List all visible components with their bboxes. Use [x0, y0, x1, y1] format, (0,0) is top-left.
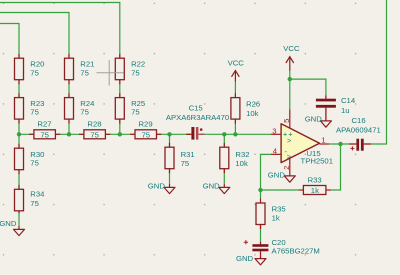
resistor R21: [65, 54, 95, 84]
svg-text:VCC: VCC: [283, 44, 300, 53]
svg-text:C14: C14: [341, 96, 356, 105]
junction bus-R31: [167, 132, 171, 136]
svg-text:75: 75: [30, 199, 39, 208]
svg-text:R22: R22: [131, 59, 145, 68]
svg-text:GND: GND: [0, 219, 17, 228]
svg-text:10k: 10k: [246, 109, 259, 118]
svg-text:75: 75: [30, 159, 39, 168]
resistor R34: [15, 185, 46, 213]
wire R35 to C20: [260, 225, 262, 242]
svg-text:5: 5: [282, 119, 291, 123]
svg-text:75: 75: [30, 108, 39, 117]
junction bus-R24: [67, 132, 71, 136]
wire inverting input net: [261, 154, 299, 198]
svg-text:GND: GND: [268, 170, 286, 179]
svg-text:1u: 1u: [341, 106, 350, 115]
junction bus-R23: [17, 132, 21, 136]
wire R26 branch: [234, 82, 236, 135]
cursor crosshair: [97, 60, 124, 85]
svg-text:R34: R34: [30, 189, 45, 198]
svg-text:A765BG227M: A765BG227M: [272, 247, 320, 256]
resistor R28: [79, 119, 110, 139]
resistor R26: [231, 93, 260, 123]
svg-text:>: >: [287, 152, 292, 161]
svg-text:R28: R28: [87, 119, 101, 128]
svg-text:75: 75: [40, 130, 49, 139]
wire column 3 R22-R25: [119, 54, 121, 134]
junction VCC-C14: [288, 77, 292, 81]
svg-text:10k: 10k: [235, 159, 248, 168]
resistor R22: [115, 54, 145, 84]
wire VCC to opamp pin5 and C14: [290, 70, 326, 110]
ground below R31: [148, 181, 175, 193]
svg-text:75: 75: [90, 130, 99, 139]
svg-text:R33: R33: [308, 176, 322, 185]
junction inverting-R35: [258, 188, 262, 192]
wire column 2 R21-R24: [68, 54, 70, 134]
wire output net: [329, 143, 349, 145]
svg-text:R24: R24: [80, 99, 95, 108]
svg-text:R21: R21: [80, 59, 94, 68]
resistor R23: [15, 93, 45, 123]
resistor R20: [15, 54, 45, 84]
wire second net to R21: [0, 13, 69, 55]
ground below R34: [0, 219, 25, 236]
resistor R35: [256, 199, 286, 230]
svg-text:GND: GND: [148, 181, 166, 190]
wire R31 to gnd: [169, 134, 171, 184]
svg-text:C16: C16: [352, 116, 366, 125]
junction bus-R26: [233, 132, 237, 136]
svg-text:GND: GND: [236, 254, 254, 263]
resistor R25: [115, 93, 145, 123]
wire R32 to gnd: [223, 134, 225, 184]
svg-text:75: 75: [80, 108, 89, 117]
resistor R24: [65, 93, 96, 123]
junction bus-R25: [118, 132, 122, 136]
wire feedback R33 to output: [331, 144, 340, 190]
resistor R33: [299, 176, 332, 195]
svg-text:APXA6R3ARA470: APXA6R3ARA470: [166, 113, 229, 122]
svg-text:GND: GND: [203, 181, 221, 190]
op-amp U15: [271, 110, 333, 176]
resistor R30: [15, 144, 45, 174]
ground below C20: [236, 254, 266, 265]
ground at op-amp pin 2: [268, 170, 295, 182]
svg-text:75: 75: [142, 130, 151, 139]
capacitor C14: [316, 96, 356, 121]
svg-text:75: 75: [131, 69, 140, 78]
wire main bus: [19, 133, 271, 135]
svg-text:1k: 1k: [272, 214, 280, 223]
svg-text:75: 75: [181, 159, 190, 168]
svg-text:75: 75: [131, 108, 140, 117]
svg-text:TPH2501: TPH2501: [301, 157, 333, 166]
svg-text:1: 1: [321, 136, 325, 145]
resistor R32: [220, 143, 250, 173]
resistor R29: [130, 119, 161, 139]
capacitor C16: [336, 116, 381, 152]
junction output-C16: [338, 142, 342, 146]
wire third net to R20: [0, 24, 19, 55]
wire C16 to right edge: [371, 0, 387, 144]
svg-text:R35: R35: [272, 204, 286, 213]
svg-text:R25: R25: [131, 99, 145, 108]
wire top net to R22: [0, 3, 120, 55]
svg-text:75: 75: [30, 69, 39, 78]
capacitor C20: [244, 238, 320, 259]
resistor R31: [165, 143, 195, 173]
power VCC at op-amp: [283, 44, 300, 71]
svg-text:VCC: VCC: [228, 59, 245, 68]
svg-text:C15: C15: [189, 103, 203, 112]
junction bus-R32: [222, 132, 226, 136]
svg-text:2: 2: [282, 166, 291, 170]
svg-text:>: >: [287, 136, 292, 145]
resistor R27: [29, 119, 60, 139]
svg-text:1k: 1k: [311, 186, 319, 195]
svg-text:4: 4: [273, 146, 278, 155]
svg-text:R20: R20: [30, 59, 44, 68]
ground below C14: [305, 114, 332, 127]
svg-text:GND: GND: [305, 114, 323, 123]
svg-text:R29: R29: [139, 119, 153, 128]
svg-text:R27: R27: [37, 119, 51, 128]
wire column 1 R20-R23-R30-R34: [18, 54, 20, 226]
svg-text:R23: R23: [30, 99, 44, 108]
svg-text:3: 3: [272, 126, 276, 135]
capacitor C15: [166, 103, 229, 140]
power VCC at R26: [228, 59, 245, 82]
ground below R32: [203, 181, 230, 193]
svg-text:APA0609471: APA0609471: [336, 125, 381, 134]
svg-text:R26: R26: [246, 99, 260, 108]
svg-text:75: 75: [80, 69, 89, 78]
